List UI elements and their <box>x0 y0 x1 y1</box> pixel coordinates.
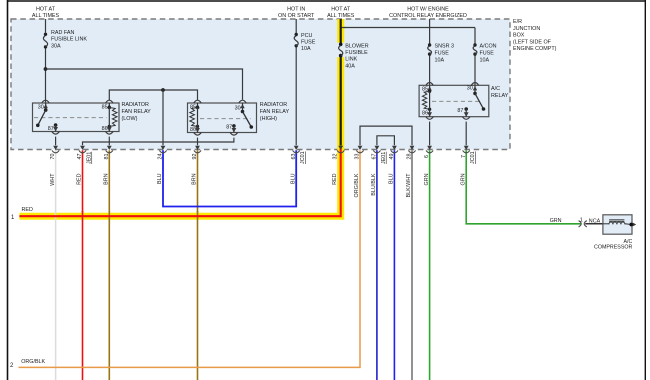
svg-text:HOT AT: HOT AT <box>331 7 351 13</box>
svg-text:RED: RED <box>22 207 33 213</box>
wire: relay 85 coil feed (low to high) <box>109 90 197 101</box>
svg-text:FUSE: FUSE <box>301 40 316 46</box>
high relay coil <box>197 103 199 108</box>
right page border <box>644 0 646 380</box>
a/c relay coil <box>429 85 431 91</box>
svg-text:(LOW): (LOW) <box>122 116 138 122</box>
svg-text:JE01: JE01 <box>87 152 93 164</box>
svg-text:28: 28 <box>407 154 413 160</box>
svg-text:BLOWER: BLOWER <box>345 44 368 50</box>
svg-text:LINK: LINK <box>345 57 357 63</box>
svg-text:HOT AT: HOT AT <box>36 7 56 13</box>
svg-text:10A: 10A <box>301 46 311 52</box>
svg-text:BLK/WHT: BLK/WHT <box>406 173 412 198</box>
low relay pin 85 arrow <box>107 104 111 109</box>
svg-text:FUSIBLE: FUSIBLE <box>345 50 368 56</box>
svg-text:RADIATOR: RADIATOR <box>122 102 149 108</box>
wire: fuse feed horizontal (over highlight) <box>341 27 346 29</box>
svg-text:E/R: E/R <box>513 19 522 25</box>
svg-text:GRN: GRN <box>460 173 466 185</box>
svg-text:JUNCTION: JUNCTION <box>513 26 540 32</box>
svg-text:85: 85 <box>190 104 196 110</box>
svg-text:67: 67 <box>372 154 378 160</box>
wire GRN pin 6 <box>429 150 431 380</box>
wire WHT pin 70 <box>55 150 57 380</box>
a/c relay box <box>419 85 489 116</box>
wire BLU pin 49 <box>393 150 395 380</box>
low relay dashed divider <box>34 117 107 119</box>
wire: rad fan feed vertical <box>45 19 47 103</box>
svg-text:FAN RELAY: FAN RELAY <box>260 109 290 115</box>
connector arrows at junction box edge <box>53 146 468 150</box>
low relay coil <box>108 103 110 108</box>
svg-text:87: 87 <box>226 125 232 131</box>
svg-text:JC01: JC01 <box>470 151 476 164</box>
svg-text:87: 87 <box>48 126 54 132</box>
wire: SNSR fuse vertical <box>429 28 431 86</box>
wire BLU/BLK pin 67 <box>376 150 378 380</box>
svg-text:1: 1 <box>580 218 583 224</box>
svg-text:49: 49 <box>389 154 395 160</box>
svg-text:30: 30 <box>38 104 44 110</box>
a/c compressor box <box>603 215 632 234</box>
svg-text:30: 30 <box>467 86 473 92</box>
left page border <box>7 0 9 380</box>
low relay switch <box>45 103 47 110</box>
wire: engine control relay feed stub <box>429 19 431 28</box>
blower hot feed: yellow highlight band <box>19 19 340 216</box>
svg-text:RAD FAN: RAD FAN <box>51 30 74 36</box>
low relay pin 86 arrow <box>108 127 110 132</box>
wire BLK/WHT pin 28 <box>411 150 413 380</box>
wire RED pin 32 (highlighted circuit) <box>19 149 340 217</box>
svg-text:BRN: BRN <box>104 173 110 184</box>
high relay pin 86 arrow <box>197 127 199 133</box>
svg-text:85: 85 <box>102 104 108 110</box>
a/c relay pin 87 contact <box>464 107 468 111</box>
svg-text:BLU: BLU <box>290 173 296 184</box>
svg-text:SNSR 3: SNSR 3 <box>435 43 454 49</box>
wire GRN pin 7 to compressor <box>466 150 581 224</box>
svg-text:86: 86 <box>190 127 196 133</box>
high relay pin 30 arc <box>239 100 246 103</box>
svg-text:30: 30 <box>235 106 241 112</box>
svg-text:HOT IN: HOT IN <box>287 7 305 13</box>
svg-text:RED: RED <box>332 173 338 184</box>
svg-text:40A: 40A <box>345 63 355 69</box>
a/c relay pin 86 arc <box>426 117 434 120</box>
svg-text:32: 32 <box>332 154 338 160</box>
wire: A/CON fuse vertical <box>474 28 476 86</box>
svg-text:(HIGH): (HIGH) <box>260 116 277 122</box>
wire BRN pin 81 <box>108 150 110 380</box>
wire: bridge pin 67 to pin 49 <box>377 136 395 146</box>
svg-text:63: 63 <box>291 154 297 160</box>
svg-text:BLU: BLU <box>389 173 395 184</box>
radiator fan relay (high) box <box>188 103 257 133</box>
svg-text:BOX: BOX <box>513 33 525 39</box>
high relay pin 85 arrow <box>195 104 199 109</box>
wire: high relay 86 stem to pin 92 <box>197 138 199 146</box>
low relay pin 86 arc <box>106 132 114 135</box>
svg-text:A/C: A/C <box>491 86 500 92</box>
svg-text:GRN: GRN <box>424 173 430 185</box>
a/c compressor clutch coil <box>603 223 609 225</box>
svg-text:FUSIBLE LINK: FUSIBLE LINK <box>51 37 87 43</box>
svg-text:FAN RELAY: FAN RELAY <box>122 109 152 115</box>
wire: connector to compressor <box>585 223 603 225</box>
svg-text:NCA: NCA <box>589 218 601 224</box>
PCU fuse 10A <box>295 33 298 36</box>
svg-text:86: 86 <box>102 126 108 132</box>
svg-text:CONTROL RELAY ENERGIZED: CONTROL RELAY ENERGIZED <box>389 13 467 19</box>
E/R junction box (dashed) <box>11 19 510 150</box>
a/c relay pin 85 arc <box>426 83 433 86</box>
a/c relay dashed divider <box>432 100 480 102</box>
re-draw verticals crossing highlight <box>55 211 57 220</box>
rad fan fusible link 30A <box>44 33 47 36</box>
svg-text:ON OR START: ON OR START <box>278 13 315 19</box>
wire: node B down to pin 24 <box>162 90 164 145</box>
svg-text:33: 33 <box>355 154 361 160</box>
a/c relay pin 30 arc <box>471 83 478 86</box>
svg-text:BRN: BRN <box>192 173 198 184</box>
a/c relay pin 85 arrow <box>427 86 431 91</box>
node A: fusible link branch <box>44 67 48 71</box>
top page border <box>8 0 646 2</box>
svg-text:ALL TIMES: ALL TIMES <box>32 13 60 19</box>
radiator fan relay (low) box <box>33 103 120 132</box>
svg-text:ENGINE COMPT): ENGINE COMPT) <box>513 46 557 52</box>
svg-text:30A: 30A <box>51 43 61 49</box>
wire: a/c relay 87 stem to pin 7 <box>465 122 467 146</box>
svg-text:ALL TIMES: ALL TIMES <box>327 13 355 19</box>
wire: branch to fan relay high pin 30 <box>46 69 243 100</box>
node B: coil feed to pin 24 <box>161 88 165 92</box>
blower black core (hot at all times) <box>340 19 342 146</box>
svg-text:FUSE: FUSE <box>435 50 450 56</box>
wire: a/c relay 86 stem to pin 6 <box>429 122 431 146</box>
svg-text:87: 87 <box>457 108 463 114</box>
svg-text:24: 24 <box>158 154 164 160</box>
A/CON fuse 10A <box>473 43 476 46</box>
svg-text:92: 92 <box>192 154 198 160</box>
high relay pin 86 arc <box>194 133 202 136</box>
low relay pin 87 arc <box>52 132 60 135</box>
high relay pin 85 arc <box>194 100 201 103</box>
svg-text:86: 86 <box>422 111 428 117</box>
svg-text:RADIATOR: RADIATOR <box>260 102 287 108</box>
svg-text:7: 7 <box>461 155 467 158</box>
svg-text:6: 6 <box>424 155 430 158</box>
svg-text:RELAY: RELAY <box>491 93 509 99</box>
high relay pin 87 arc <box>230 133 238 136</box>
high relay dashed divider <box>200 118 251 120</box>
svg-text:WHT: WHT <box>50 173 56 186</box>
blower fusible link 40A <box>339 43 343 47</box>
svg-text:A/CON: A/CON <box>480 43 497 49</box>
svg-text:BLU/BLK: BLU/BLK <box>371 173 377 196</box>
wire: low relay 86 stem to pin 81 <box>108 137 110 146</box>
high relay switch <box>242 103 244 112</box>
svg-text:BLU: BLU <box>157 173 163 184</box>
svg-text:PCU: PCU <box>301 33 312 39</box>
low relay pin 30 arc <box>42 100 49 103</box>
connector cups below junction box edge <box>52 150 470 152</box>
low relay pin 85 arc <box>106 100 113 103</box>
wire: low relay 87 stem to pin 70 <box>55 137 57 146</box>
svg-text:47: 47 <box>77 154 83 160</box>
svg-text:(LEFT SIDE OF: (LEFT SIDE OF <box>513 39 552 45</box>
a/c relay pin 86 arrow <box>429 109 431 116</box>
svg-text:GRN: GRN <box>550 218 562 224</box>
svg-text:81: 81 <box>104 154 110 160</box>
svg-text:COMPRESSOR: COMPRESSOR <box>594 245 632 251</box>
svg-text:85: 85 <box>422 87 428 93</box>
svg-text:ORG/BLK: ORG/BLK <box>354 173 360 197</box>
a/c relay switch <box>474 85 476 93</box>
wire BLU jumper pin 24 to pin 63 <box>163 150 296 206</box>
wire BRN pin 92 <box>197 150 199 380</box>
compressor connector arrow <box>579 221 582 227</box>
svg-text:10A: 10A <box>480 58 490 64</box>
wire ORG/BLK pin 33 <box>19 150 361 367</box>
svg-text:70: 70 <box>50 154 56 160</box>
wire: fuse feed horizontal <box>341 27 475 29</box>
svg-text:FUSE: FUSE <box>480 50 495 56</box>
wire: PCU fuse vertical <box>295 19 297 145</box>
svg-text:ORG/BLK: ORG/BLK <box>21 359 45 365</box>
compressor connector cup <box>584 221 587 227</box>
svg-text:JC01: JC01 <box>300 151 306 164</box>
svg-text:RED: RED <box>77 173 83 184</box>
svg-text:JE01: JE01 <box>381 152 387 164</box>
svg-text:10A: 10A <box>435 58 445 64</box>
wire RED pin 47 <box>82 150 84 380</box>
gap in highlight at blower fusible link <box>337 43 345 58</box>
wire: high relay 87 to pin 47 <box>83 138 234 146</box>
a/c relay pin 87 arc <box>462 117 470 120</box>
SNSR 3 fuse 10A <box>428 43 431 46</box>
low relay pin 87 contact <box>54 123 58 127</box>
svg-text:HOT W/ ENGINE: HOT W/ ENGINE <box>407 7 449 13</box>
high relay pin 87 contact <box>232 124 236 128</box>
wire: bridge pin 33 to pin 28 <box>360 126 412 145</box>
